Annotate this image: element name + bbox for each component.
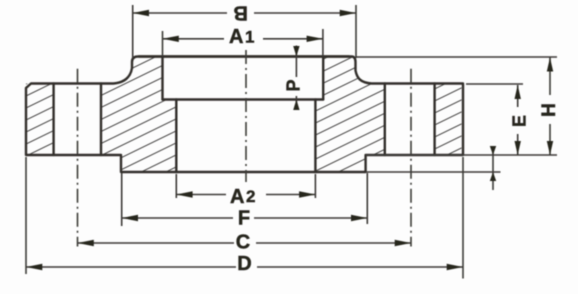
arrow B right xyxy=(340,10,356,16)
arrow A2 right xyxy=(299,191,315,197)
arrow P top xyxy=(293,46,299,57)
svg-text:A: A xyxy=(229,26,243,48)
hatch fill left body and hub wall xyxy=(101,57,176,173)
dimension line A2 xyxy=(176,194,315,196)
arrow C left xyxy=(78,240,94,246)
extension line D left xyxy=(25,157,27,274)
arrow A1 right xyxy=(307,36,323,42)
dimension line B xyxy=(133,12,356,14)
hub top face line across socket xyxy=(139,55,349,57)
arrow H bottom xyxy=(547,141,553,155)
extension line A2 left xyxy=(175,174,177,198)
extension line A2 right xyxy=(314,174,316,198)
hatch fill left rim xyxy=(26,84,54,156)
extension line F left xyxy=(121,173,123,226)
arrow H top xyxy=(547,58,553,72)
svg-text:A: A xyxy=(230,186,244,208)
arrow P bottom xyxy=(293,100,299,111)
bore right wall xyxy=(314,100,316,173)
arrow F left xyxy=(122,215,138,221)
arrow D left xyxy=(26,264,42,270)
hatch fill right rim xyxy=(435,84,462,156)
extension line B right xyxy=(355,5,357,58)
arrow small step top xyxy=(490,146,496,155)
flange outer outline xyxy=(26,57,463,173)
dimension line P shaft xyxy=(295,46,297,111)
dimension line H xyxy=(549,58,551,156)
arrow small step bottom xyxy=(490,172,496,181)
svg-text:P: P xyxy=(284,79,304,91)
extension line flange bottom right for E and H xyxy=(366,154,557,156)
socket counterbore right wall xyxy=(322,57,324,100)
extension line hub top right for H xyxy=(356,56,557,58)
svg-text:C: C xyxy=(236,232,250,254)
extension line F right xyxy=(366,173,368,224)
dimension line A1 xyxy=(163,38,323,40)
dimension line E xyxy=(517,85,519,155)
svg-text:H: H xyxy=(539,103,560,117)
svg-text:D: D xyxy=(237,253,251,275)
svg-text:2: 2 xyxy=(246,187,255,206)
extension line A1 left xyxy=(162,31,164,56)
dimension line small step xyxy=(492,146,494,190)
dimension line D xyxy=(26,266,463,268)
arrow B left xyxy=(133,10,149,16)
extension line flange top right for E xyxy=(466,83,523,85)
right bolt hole right edge xyxy=(433,84,435,156)
socket shoulder line across bore xyxy=(163,98,324,100)
svg-text:B: B xyxy=(233,2,247,24)
extension line raised face bottom right xyxy=(366,171,501,173)
arrow E bottom xyxy=(515,141,521,155)
centerline right bolt hole xyxy=(410,69,412,247)
socket counterbore left wall xyxy=(161,57,163,100)
dimension line F xyxy=(122,217,368,219)
svg-text:1: 1 xyxy=(245,28,254,47)
dimension line C xyxy=(78,242,412,244)
extension line B left xyxy=(132,5,134,58)
arrow F right xyxy=(351,215,367,221)
arrow D right xyxy=(447,264,463,270)
right bolt hole left edge xyxy=(384,84,386,156)
svg-text:F: F xyxy=(238,208,250,230)
arrow C right xyxy=(395,240,411,246)
centerline main axis xyxy=(245,50,247,182)
bore left wall xyxy=(175,100,177,173)
arrow A2 left xyxy=(176,191,192,197)
arrow A1 left xyxy=(163,36,179,42)
hatch fill right body and hub wall xyxy=(315,57,384,173)
arrow E top xyxy=(515,85,521,99)
extension line D right xyxy=(462,157,464,279)
left bolt hole left edge xyxy=(52,84,54,156)
svg-text:E: E xyxy=(510,115,530,127)
centerline left bolt hole xyxy=(77,69,79,247)
extension line A1 right xyxy=(322,29,324,56)
left bolt hole right edge xyxy=(100,84,102,156)
